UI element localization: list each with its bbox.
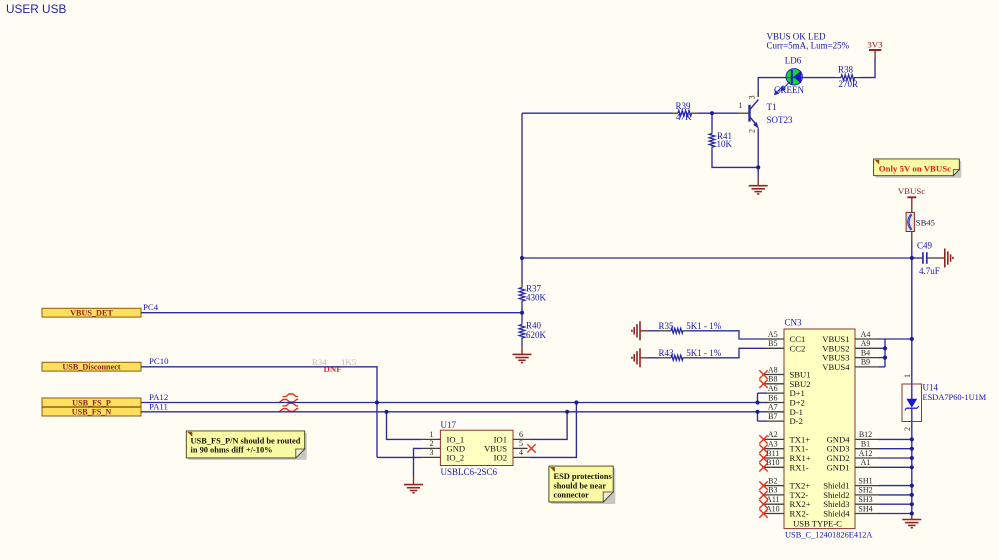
collector diagonal bbox=[750, 100, 759, 111]
svg-text:A6: A6 bbox=[768, 384, 778, 393]
junction PC10 x PA12 bbox=[375, 400, 379, 404]
svg-text:PC10: PC10 bbox=[149, 356, 169, 366]
svg-text:USER USB: USER USB bbox=[6, 2, 66, 16]
junction C49 at VBUSc column bbox=[910, 256, 914, 260]
svg-text:10K: 10K bbox=[717, 139, 733, 149]
pin B5 CC2 bbox=[766, 347, 784, 349]
ground at T1 emitter bbox=[749, 177, 768, 194]
svg-text:B1: B1 bbox=[861, 440, 870, 449]
svg-text:VBUS_DET: VBUS_DET bbox=[70, 309, 113, 318]
pin B8 SBU2 bbox=[764, 383, 785, 385]
wire U17 IO2 pin4 to PA12 bbox=[531, 403, 577, 458]
pin A7 D-1 bbox=[766, 411, 784, 413]
wire C49 left lead bbox=[912, 257, 923, 259]
pin 6 IO1 bbox=[513, 438, 531, 440]
ground at C49 (rotated right) bbox=[941, 249, 953, 268]
svg-text:ESDA7P60-1U1M: ESDA7P60-1U1M bbox=[923, 393, 987, 402]
pin B11 RX1+ bbox=[764, 457, 785, 459]
cathode bar bbox=[791, 70, 793, 84]
svg-text:USB_C_12401826E412A: USB_C_12401826E412A bbox=[785, 531, 872, 540]
svg-text:430K: 430K bbox=[526, 293, 547, 303]
svg-text:D-2: D-2 bbox=[790, 416, 803, 426]
resistor R35 5K1 - 1% bbox=[659, 321, 722, 333]
svg-text:RX2-: RX2- bbox=[790, 509, 809, 519]
svg-text:LD6: LD6 bbox=[785, 56, 802, 66]
svg-text:B10: B10 bbox=[766, 458, 779, 467]
wire R39 to base junction bbox=[697, 112, 737, 114]
svg-text:GREEN: GREEN bbox=[774, 85, 804, 95]
pin B7 D-2 bbox=[766, 420, 784, 422]
collector pin stub bbox=[757, 92, 759, 97]
wire VBUS pins tie column bbox=[884, 339, 886, 367]
wire R43 ground lead blue part bbox=[648, 357, 659, 359]
wire R35 to CC1 pin A5 bbox=[690, 331, 766, 339]
ground at CN3 GND column bbox=[902, 515, 921, 528]
svg-text:5K1 - 1%: 5K1 - 1% bbox=[686, 348, 721, 358]
resistor R38 270R bbox=[835, 65, 860, 89]
svg-text:270R: 270R bbox=[839, 79, 859, 89]
ground at R43 (rotated left) bbox=[632, 348, 649, 367]
transistor T1 SOT23 bbox=[737, 92, 793, 133]
wire D- pair tie A7-B7 bbox=[757, 412, 759, 421]
wire T1 emitter down to ground node bbox=[757, 129, 759, 178]
solder bridge SB45 bbox=[906, 207, 935, 242]
pin A1 GND1 bbox=[855, 466, 880, 468]
svg-text:SOT23: SOT23 bbox=[767, 115, 794, 125]
svg-text:SH2: SH2 bbox=[858, 486, 872, 495]
note Only 5V on VBUSc bbox=[874, 159, 962, 178]
pin B1 GND3 bbox=[855, 448, 880, 450]
power symbol VBUSc bbox=[898, 186, 925, 207]
wire LED to R38 bbox=[803, 77, 836, 79]
svg-text:B8: B8 bbox=[768, 375, 777, 384]
junction base/R41 bbox=[710, 111, 714, 115]
junction VBUS tie rows bbox=[883, 346, 887, 350]
wire PC4 net from port to divider bbox=[141, 312, 522, 314]
svg-text:A9: A9 bbox=[861, 339, 871, 348]
connector CN3 USB TYPE-C bbox=[759, 318, 879, 540]
lead through body bbox=[786, 77, 803, 79]
svg-text:IO_2: IO_2 bbox=[447, 452, 465, 462]
junction PA11 at connector bbox=[755, 410, 759, 414]
port USB_FS_N bbox=[42, 407, 141, 416]
svg-text:Only 5V on VBUSc: Only 5V on VBUSc bbox=[879, 163, 951, 173]
svg-text:SH1: SH1 bbox=[858, 476, 872, 485]
svg-text:A5: A5 bbox=[768, 330, 778, 339]
svg-text:in 90 ohms diff +/-10%: in 90 ohms diff +/-10% bbox=[191, 446, 273, 455]
resistor R39 47K bbox=[672, 101, 697, 122]
pin SH1 Shield1 bbox=[855, 485, 880, 487]
svg-text:3V3: 3V3 bbox=[867, 40, 883, 50]
pin 5 VBUS (not connected) bbox=[513, 447, 528, 449]
wire VBUS sense horizontal to VBUSc column bbox=[522, 257, 912, 259]
svg-text:PA12: PA12 bbox=[149, 392, 168, 402]
svg-text:B12: B12 bbox=[859, 430, 872, 439]
svg-text:3: 3 bbox=[748, 95, 757, 99]
wire PC10 net to R34 and down to U17 IO_2 bbox=[141, 367, 377, 458]
pin B6 D+2 bbox=[766, 402, 784, 404]
wire R38 to 3V3 rail corner bbox=[860, 58, 875, 78]
svg-text:VBUS4: VBUS4 bbox=[822, 362, 850, 372]
LED LD6 GREEN bbox=[774, 56, 805, 96]
wire PA11 branch to U17 IO_1 pin1 bbox=[387, 412, 422, 440]
svg-text:5: 5 bbox=[519, 439, 523, 448]
svg-text:USB_FS_N: USB_FS_N bbox=[72, 407, 112, 416]
svg-text:1: 1 bbox=[903, 374, 912, 378]
svg-text:2: 2 bbox=[748, 129, 757, 133]
pin 1 IO_1 bbox=[422, 438, 441, 440]
emitter diagonal with arrow bbox=[750, 117, 758, 126]
svg-text:U17: U17 bbox=[441, 420, 457, 430]
svg-text:2: 2 bbox=[430, 439, 434, 448]
IC U17 USBLC6-2SC6 bbox=[422, 420, 536, 477]
resistor R43 5K1 - 1% bbox=[659, 348, 722, 360]
junction GND rows bbox=[910, 437, 914, 441]
svg-text:A3: A3 bbox=[768, 440, 778, 449]
svg-text:SH3: SH3 bbox=[858, 495, 872, 504]
svg-text:A12: A12 bbox=[859, 449, 873, 458]
wire U17 IO1 pin6 to PA11 bbox=[531, 412, 568, 440]
pin A9 VBUS2 bbox=[855, 347, 880, 349]
pin A4 VBUS1 bbox=[855, 338, 880, 340]
svg-text:T1: T1 bbox=[767, 102, 777, 112]
svg-text:C49: C49 bbox=[917, 240, 933, 250]
capacitor C49 4.7uF bbox=[917, 240, 941, 276]
svg-text:USB TYPE-C: USB TYPE-C bbox=[793, 519, 842, 529]
wire T1 base net from divider top to R39 bbox=[522, 112, 672, 114]
wire D+ pair tie A6-B6 bbox=[757, 393, 759, 402]
pin SH4 Shield4 bbox=[855, 513, 880, 515]
wire U17 GND pin2 to ground bbox=[414, 448, 422, 476]
svg-text:RX1-: RX1- bbox=[790, 462, 809, 472]
pin B3 TX2- bbox=[764, 494, 785, 496]
emission arrow 2 bbox=[777, 86, 784, 93]
svg-text:3: 3 bbox=[430, 448, 434, 457]
pin SH3 Shield3 bbox=[855, 503, 880, 505]
resistor R34 greyed DNF labels bbox=[312, 357, 357, 374]
junction PA12 at connector bbox=[755, 400, 759, 404]
svg-text:SH4: SH4 bbox=[858, 504, 872, 513]
svg-text:4.7uF: 4.7uF bbox=[919, 266, 940, 276]
svg-text:B4: B4 bbox=[861, 348, 870, 357]
pin SH2 Shield2 bbox=[855, 494, 880, 496]
zener cathode bar bbox=[906, 407, 917, 409]
svg-text:620K: 620K bbox=[526, 330, 547, 340]
pin 1 base lead bbox=[737, 112, 750, 114]
svg-text:CN3: CN3 bbox=[785, 318, 803, 328]
svg-text:6: 6 bbox=[519, 430, 523, 439]
port VBUS_DET bbox=[42, 308, 141, 317]
svg-text:GND1: GND1 bbox=[827, 462, 850, 472]
svg-text:1: 1 bbox=[430, 430, 434, 439]
svg-text:USB_FS_P: USB_FS_P bbox=[72, 398, 111, 407]
wire VBUS row A4 to main column bbox=[879, 338, 912, 340]
svg-text:R39: R39 bbox=[676, 101, 692, 111]
pin A6 D+1 bbox=[766, 392, 784, 394]
svg-text:Curr=5mA, Lum=25%: Curr=5mA, Lum=25% bbox=[767, 40, 850, 50]
svg-text:B11: B11 bbox=[766, 449, 779, 458]
wire PA11 USB_FS_N net bbox=[141, 411, 758, 413]
resistor R37 430K bbox=[519, 283, 546, 303]
junction shield rows bbox=[910, 484, 914, 488]
svg-text:5K1 - 1%: 5K1 - 1% bbox=[686, 321, 721, 331]
svg-text:CC2: CC2 bbox=[790, 343, 806, 353]
svg-text:B3: B3 bbox=[768, 486, 777, 495]
svg-text:B2: B2 bbox=[768, 476, 777, 485]
power symbol 3V3 bbox=[867, 40, 883, 59]
junction divider top / VBUS sense bbox=[520, 256, 524, 260]
pin 2 GND bbox=[422, 447, 441, 449]
junction VBUS_DET divider mid bbox=[520, 311, 524, 315]
wire T1 collector up to LED bbox=[758, 78, 786, 97]
svg-text:1: 1 bbox=[739, 101, 743, 110]
pin A2 TX1+ bbox=[764, 438, 785, 440]
junction emitter/R41/ground bbox=[756, 165, 760, 169]
wire R41 bottom to emitter node bbox=[712, 151, 758, 168]
ground at U17 GND pin bbox=[404, 476, 423, 493]
note USB_FS_P/N routing bbox=[186, 431, 306, 460]
svg-text:A7: A7 bbox=[768, 403, 778, 412]
pin B2 TX2+ bbox=[764, 485, 785, 487]
svg-text:1K5: 1K5 bbox=[341, 357, 357, 367]
svg-text:A8: A8 bbox=[768, 365, 778, 374]
pin 4 IO2 bbox=[513, 456, 531, 458]
svg-text:B6: B6 bbox=[768, 393, 777, 402]
svg-text:USB_FS_P/N should be routed: USB_FS_P/N should be routed bbox=[191, 436, 301, 445]
wire PA12 USB_FS_P net bbox=[141, 402, 758, 404]
svg-text:B5: B5 bbox=[768, 339, 777, 348]
svg-text:USBLC6-2SC6: USBLC6-2SC6 bbox=[441, 467, 498, 477]
wire R41 top connection bbox=[711, 113, 713, 130]
junction PA12 to IO2 bbox=[574, 400, 578, 404]
svg-text:2: 2 bbox=[903, 427, 912, 431]
port USB_FS_P bbox=[42, 398, 141, 407]
pin A8 SBU1 bbox=[764, 374, 785, 376]
svg-text:USB_Disconnect: USB_Disconnect bbox=[62, 363, 120, 372]
diode lead through box bbox=[911, 384, 913, 399]
wire PC10 branch into U17 pin3 bbox=[377, 456, 422, 458]
port USB_Disconnect bbox=[42, 362, 141, 371]
pin B12 GND4 bbox=[855, 438, 880, 440]
svg-text:4: 4 bbox=[519, 448, 523, 457]
wire R43 to CC2 pin B5 bbox=[690, 348, 766, 358]
led body bbox=[786, 69, 802, 85]
svg-text:IO2: IO2 bbox=[494, 452, 507, 462]
wire VBUS rows to tie column bbox=[879, 347, 885, 349]
svg-text:connector: connector bbox=[554, 491, 590, 500]
svg-text:should be near: should be near bbox=[554, 481, 607, 490]
svg-text:VBUSc: VBUSc bbox=[898, 186, 925, 196]
svg-text:B9: B9 bbox=[861, 358, 870, 367]
TVS diode U14 ESDA7P60-1U1M bbox=[902, 374, 987, 431]
svg-text:A10: A10 bbox=[766, 504, 780, 513]
resistor R41 10K bbox=[709, 130, 732, 151]
junction PA11 to IO1 bbox=[565, 410, 569, 414]
svg-text:Shield4: Shield4 bbox=[823, 509, 850, 519]
differential pair marker on PA11 bbox=[279, 403, 299, 412]
pin B4 VBUS3 bbox=[855, 357, 880, 359]
svg-text:PC4: PC4 bbox=[143, 302, 159, 312]
note ESD protections bbox=[549, 466, 615, 504]
wire R35 ground lead blue part bbox=[648, 330, 659, 332]
pin A12 GND2 bbox=[855, 457, 880, 459]
ground at R40 bbox=[513, 346, 532, 363]
wire GND and shield rows to column bbox=[879, 438, 912, 440]
wire divider vertical VBUS_DET node bbox=[521, 113, 523, 284]
ground at R35 (rotated left) bbox=[632, 321, 649, 340]
base bar bbox=[748, 105, 750, 122]
junction PA11 to IO_1 bbox=[384, 410, 388, 414]
svg-text:47K: 47K bbox=[676, 112, 692, 122]
emission arrow 1 bbox=[783, 82, 790, 89]
svg-text:A1: A1 bbox=[861, 458, 871, 467]
svg-text:ESD protections: ESD protections bbox=[554, 472, 613, 481]
pin A3 TX1- bbox=[764, 448, 785, 450]
svg-text:A2: A2 bbox=[768, 430, 778, 439]
no-ERC cross on pin 5 bbox=[527, 444, 535, 452]
pin B9 VBUS4 bbox=[855, 366, 880, 368]
wire main GND column lower bbox=[911, 422, 913, 516]
svg-text:DNF: DNF bbox=[324, 364, 342, 374]
pin A11 RX2+ bbox=[764, 503, 785, 505]
wire main VBUSc column upper bbox=[911, 241, 913, 384]
pin A5 CC1 bbox=[766, 338, 784, 340]
svg-text:B7: B7 bbox=[768, 412, 777, 421]
differential pair marker on PA12 bbox=[279, 394, 299, 403]
diode triangle bbox=[906, 399, 917, 408]
svg-text:SB45: SB45 bbox=[916, 217, 935, 227]
svg-text:A11: A11 bbox=[766, 495, 779, 504]
pin A10 RX2- bbox=[764, 513, 785, 515]
svg-text:R38: R38 bbox=[838, 65, 854, 75]
anode triangle bbox=[793, 71, 801, 84]
svg-text:U14: U14 bbox=[923, 382, 939, 392]
svg-text:A4: A4 bbox=[861, 330, 871, 339]
resistor R40 620K bbox=[519, 321, 546, 341]
pin 3 IO_2 bbox=[422, 456, 441, 458]
svg-text:R43: R43 bbox=[659, 348, 675, 358]
svg-text:R35: R35 bbox=[659, 321, 675, 331]
junction A4 row at VBUSc column bbox=[910, 337, 914, 341]
pin B10 RX1- bbox=[764, 466, 785, 468]
